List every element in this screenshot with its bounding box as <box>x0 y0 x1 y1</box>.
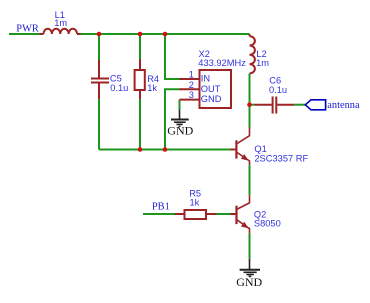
resistor R5 <box>175 210 217 219</box>
svg-text:S8050: S8050 <box>254 219 281 229</box>
capacitor C5 <box>91 60 109 99</box>
wire C5 drop <box>98 34 100 150</box>
module X2 <box>180 70 232 108</box>
svg-text:2: 2 <box>189 80 194 90</box>
svg-text:GND: GND <box>201 94 222 104</box>
svg-text:433.92MHz: 433.92MHz <box>198 58 246 68</box>
junction top rail at R4 <box>138 32 143 37</box>
port antenna <box>305 100 325 110</box>
wire R4 drop <box>139 34 141 150</box>
svg-text:1k: 1k <box>147 83 157 93</box>
transistor Q2 <box>237 195 250 234</box>
wire X2 pin3 to ground <box>179 100 181 110</box>
wire X2 pin1 feed <box>165 34 180 79</box>
wire R5 to Q2 base <box>217 213 231 215</box>
wire PWR rail left segment <box>9 33 40 35</box>
svg-text:OUT: OUT <box>201 84 221 94</box>
ground under X2 pin3 <box>171 110 189 127</box>
wire Q1 emitter to Q2 collector <box>249 165 251 194</box>
wire C6 stub from junction <box>250 104 255 106</box>
svg-text:1m: 1m <box>256 58 269 68</box>
svg-text:PB1: PB1 <box>152 201 170 212</box>
ground under Q2 <box>240 259 260 277</box>
svg-text:C6: C6 <box>269 76 281 86</box>
svg-text:3: 3 <box>189 90 194 100</box>
svg-text:0.1u: 0.1u <box>110 83 128 93</box>
wire X2 pin2 to bottom rail <box>165 89 180 149</box>
resistor R4 <box>135 59 145 99</box>
wire Q2 emitter to ground <box>249 233 251 259</box>
svg-text:1m: 1m <box>54 18 67 28</box>
junction at C6 tap <box>247 102 252 107</box>
wire C6 to port <box>294 104 305 106</box>
wire bottom rail <box>99 149 231 151</box>
wire L2 to junction <box>249 74 251 128</box>
junction bottom rail at X2 pin2 <box>163 147 168 152</box>
wire Q1 base pin <box>231 149 236 151</box>
junction top rail at C5 <box>97 32 102 37</box>
svg-text:2SC3357 RF: 2SC3357 RF <box>254 153 308 163</box>
wire PB1 rail <box>143 213 175 215</box>
inductor L2 <box>250 34 255 73</box>
junction top rail at X2 pin1 <box>163 32 168 37</box>
svg-text:antenna: antenna <box>327 100 360 111</box>
inductor L1 <box>40 29 81 34</box>
svg-text:GND: GND <box>167 123 193 137</box>
svg-text:0.1u: 0.1u <box>269 85 287 95</box>
wire Q2 base pin <box>231 213 236 215</box>
svg-text:IN: IN <box>201 74 210 84</box>
svg-text:PWR: PWR <box>16 24 39 35</box>
svg-text:1: 1 <box>189 70 194 80</box>
arrow Q2 emitter <box>241 222 249 229</box>
capacitor C6 <box>255 97 295 114</box>
svg-text:1k: 1k <box>190 198 200 208</box>
transistor Q1 <box>236 128 249 166</box>
svg-text:GND: GND <box>236 275 262 289</box>
junction bottom rail at R4 <box>138 147 143 152</box>
arrow Q1 emitter <box>241 154 249 161</box>
wire top rail <box>81 33 250 35</box>
